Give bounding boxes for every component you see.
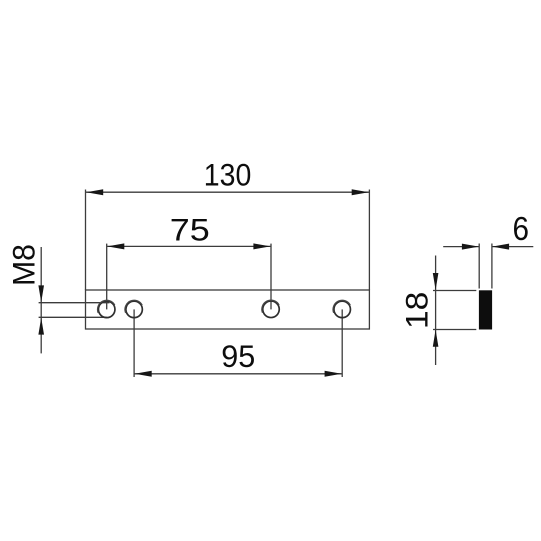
svg-text:95: 95 [221, 338, 255, 374]
svg-text:M8: M8 [5, 244, 41, 286]
svg-text:18: 18 [399, 292, 435, 329]
svg-text:130: 130 [204, 157, 252, 193]
svg-text:75: 75 [170, 211, 210, 247]
svg-text:6: 6 [513, 210, 530, 247]
